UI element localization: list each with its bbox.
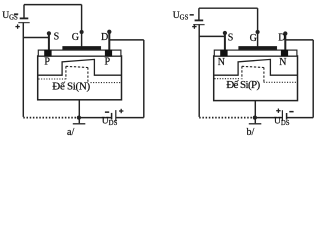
depletion dotted line left b: [215, 78, 241, 80]
gate electrode a: [63, 46, 101, 49]
wire drain branch a: [109, 39, 144, 41]
wire UDSb to right rail: [287, 117, 314, 119]
svg-text:P: P: [105, 57, 111, 68]
node Sa terminal dot: [47, 31, 51, 35]
wire top UaGS to gate: [24, 4, 82, 6]
node Sb terminal dot: [223, 31, 227, 35]
node bottom junction dot b: [253, 115, 257, 119]
svg-text:Đế Si(N): Đế Si(N): [52, 81, 90, 93]
label UDSa plus sign: [119, 109, 123, 113]
source contact b: [220, 50, 227, 57]
wire substrate to bottom rail a: [78, 100, 80, 118]
svg-text:S: S: [54, 31, 60, 42]
battery UDSa: [112, 110, 116, 121]
channel depletion dashed boundary a: [66, 66, 88, 82]
substrate body Đế Si(N) a: [38, 56, 122, 100]
node Db terminal dot: [283, 31, 287, 35]
drain contact b: [281, 50, 288, 57]
wire right drain rail b: [312, 40, 314, 118]
svg-text:D: D: [101, 32, 108, 43]
svg-text:G: G: [250, 33, 257, 44]
label UGSa plus sign: [15, 24, 19, 28]
wire bottom dotted segment b: [199, 117, 253, 119]
label UGSb plus sign: [192, 24, 196, 28]
wire gate lead Ga: [81, 5, 83, 47]
ground bar b: [249, 123, 261, 125]
svg-text:Đế Si(P): Đế Si(P): [226, 79, 260, 91]
node Gb junction dot: [256, 30, 260, 34]
wire right drain rail a: [143, 40, 145, 118]
svg-text:b/: b/: [247, 127, 255, 138]
ground bar a: [73, 123, 86, 125]
battery UDSb: [282, 110, 286, 121]
wire substrate to bottom rail b: [254, 101, 256, 118]
node bottom junction dot a: [77, 115, 81, 119]
svg-text:G: G: [72, 32, 79, 43]
svg-text:a/: a/: [67, 127, 74, 138]
gate electrode b: [239, 46, 277, 49]
P-region boundary line a: [38, 59, 121, 75]
drain contact a: [105, 50, 112, 57]
oxide layer bar b: [214, 50, 297, 56]
svg-text:N: N: [279, 57, 286, 68]
label UGSa minus sign: [14, 13, 18, 15]
wire UDSa to right rail: [116, 117, 144, 119]
label UDSb plus sign: [276, 109, 280, 113]
svg-text:N: N: [218, 57, 225, 68]
svg-text:P: P: [44, 57, 50, 68]
depletion dotted line right b: [264, 81, 297, 83]
ground stub a: [78, 118, 80, 124]
label UDSa minus sign: [105, 111, 109, 113]
node Ga junction dot: [80, 30, 84, 34]
substrate body Đế Si(P) b: [214, 56, 298, 101]
depletion dotted line right a: [91, 82, 121, 84]
wire drain branch b: [285, 39, 313, 41]
drain lead Da: [108, 32, 110, 51]
source lead Sb: [224, 33, 226, 52]
label UDSb minus sign: [289, 111, 293, 113]
drain lead Db: [284, 34, 286, 51]
battery UGSa: [18, 5, 29, 117]
svg-text:S: S: [228, 32, 234, 43]
ground stub b: [254, 118, 256, 124]
channel depletion dashed boundary b: [242, 66, 264, 82]
depletion dotted line left a: [39, 78, 68, 80]
N-region boundary line b: [214, 59, 297, 75]
wire top UbGS to gate: [199, 7, 258, 9]
wire junction to UDSa: [79, 117, 111, 119]
svg-text:D: D: [278, 33, 285, 44]
wire source branch a: [23, 37, 49, 39]
battery UGSb: [193, 8, 204, 117]
label UGSb minus sign: [190, 14, 194, 16]
wire gate lead Gb: [257, 8, 259, 47]
wire source branch b: [199, 35, 225, 37]
oxide layer bar a: [38, 50, 121, 56]
wire junction to UDSb: [255, 117, 282, 119]
node Da terminal dot: [107, 30, 111, 34]
source contact a: [44, 50, 51, 57]
source lead Sa: [48, 33, 50, 51]
wire bottom dotted segment a: [23, 117, 77, 119]
